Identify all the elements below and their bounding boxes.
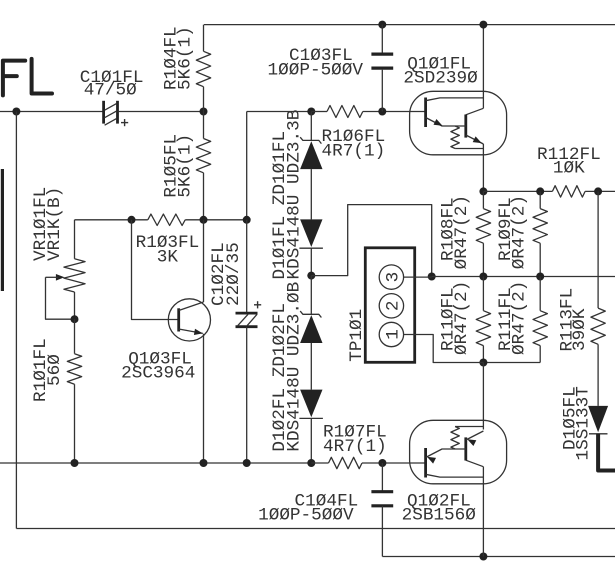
svg-text:VR1K(B): VR1K(B) [45,187,65,261]
node Q101 top rail [479,21,487,29]
resistor R108 [476,209,490,244]
wire TP pin3 [404,276,432,278]
VR101 wiper arrow [56,274,65,281]
wire VR101 top [74,220,76,259]
svg-text:1ØØP-5ØØV: 1ØØP-5ØØV [258,506,354,526]
wire R105 top stub [203,112,205,139]
svg-text:2SB156Ø: 2SB156Ø [402,506,477,526]
Q102 T2 base bar [464,437,467,460]
node diode chain top [307,108,315,116]
TP101 pin 1 [379,322,403,346]
transistor Q103 [168,299,210,341]
wire output rail [432,276,615,278]
wire left drop [15,112,17,529]
wire R104 top stub [203,25,205,52]
wire R103 row right [185,219,247,221]
wire ZD102 stub [310,276,312,315]
resistor R109 [533,209,547,244]
diode D105 [588,406,608,432]
wire ZD102-D102 [310,343,312,390]
wire D102 bottom [310,418,312,463]
svg-text:4R7(1): 4R7(1) [323,437,387,457]
wire Q102 emitter top [482,363,484,430]
Q102 base wire [424,462,426,464]
capacitor C104 [371,490,393,493]
svg-text:2: 2 [384,300,404,311]
wire C103 stub bottom [381,70,383,112]
node C102 bus [243,459,251,467]
transistor Q101 package [410,91,507,155]
node R109 top [536,187,544,195]
node R109/R111 [536,273,544,281]
node Q103 emitter bus [200,459,208,467]
svg-text:3K: 3K [157,247,179,267]
potentiometer VR101 [64,259,85,292]
Q101 T1 emitter [426,118,466,127]
resistor R107 [329,457,363,468]
node C102 top [243,216,251,224]
svg-text:5K6(1): 5K6(1) [176,134,196,198]
wire C104 stub top [381,463,383,492]
resistor R101 [67,354,81,385]
wire ZD101-D101 [310,169,312,219]
wire diode-mid to TP [311,205,431,277]
thick partial symbol at left edge [1,169,4,291]
node R104/R105 [200,108,208,116]
wire D105 thick out [598,434,615,471]
svg-text:39ØK: 39ØK [570,308,590,351]
node Q102 collector rail [479,553,487,561]
TP101 pin 2 [379,294,403,318]
svg-text:ØR47(2): ØR47(2) [452,281,472,355]
Q101 T2 emitter [466,135,484,144]
wire ZD101 stub [310,112,312,141]
connector TP101 box [365,248,414,362]
svg-text:47/5Ø: 47/5Ø [84,81,137,101]
wire R109 bottom stub [539,243,541,276]
node diode mid [307,272,315,280]
zener ZD102 [300,311,321,317]
Q102 T2 emitter [466,431,484,440]
node C103 top [378,21,386,29]
wire R105 bottom stub [203,173,205,220]
resistor R110 [482,277,484,311]
svg-text:KDS4148U UDZ3.ØB: KDS4148U UDZ3.ØB [285,282,305,452]
wire R101 top stub [74,319,76,354]
node R103 right [200,216,208,224]
capacitor C103 [371,52,393,55]
node VR101/R101 [71,315,79,323]
svg-text:KDS4148U UDZ3.3B: KDS4148U UDZ3.3B [285,110,305,280]
capacitor C102 [236,312,258,315]
wire VR101 bottom [74,292,76,319]
svg-text:1ØØP-5ØØV: 1ØØP-5ØØV [268,60,364,80]
node R101 bus [71,459,79,467]
resistor R103 [148,214,185,225]
wire mid segment [247,111,312,113]
Q102 T1 emitter [426,449,466,458]
wire bottom feedback rail [16,528,615,530]
wire C104 stub bottom [381,506,383,557]
node R112/R113 [594,187,602,195]
node R108/R110 [479,273,487,281]
svg-text:TP1Ø1: TP1Ø1 [347,309,367,362]
wire R106 right / Q101 base [363,111,426,113]
svg-text:ØR47(2): ØR47(2) [452,195,472,269]
Q101 T1 base bar [424,98,427,128]
wire R104 bottom stub [203,87,205,112]
node C104 top [378,459,386,467]
wire Q101 emitter out [482,144,484,191]
wire D101 bottom [310,248,312,275]
svg-text:4R7(1): 4R7(1) [322,141,386,161]
diode D101 [300,219,322,247]
svg-text:5K6(1): 5K6(1) [176,26,196,90]
svg-text:2SC3964: 2SC3964 [121,364,195,384]
Q102 T1 base bar [424,448,427,478]
node Q102 top [479,359,487,367]
wire top rail [204,24,615,26]
Q101 T2 base bar [464,115,467,138]
node main-left [12,108,20,116]
Q101 internal resistor [451,126,459,149]
svg-text:1: 1 [384,329,404,340]
svg-text:56Ø: 56Ø [45,354,65,386]
transistor Q102 package [410,420,507,484]
wire emitter row [483,190,552,192]
resistor R104 [196,51,210,86]
Q101 T1 collector [426,98,484,101]
svg-text:1ØK: 1ØK [553,159,585,179]
wire R106 left [311,111,327,113]
svg-text:22Ø/35: 22Ø/35 [224,242,244,306]
Q102 internal resistor [451,427,459,450]
svg-text:ØR47(2): ØR47(2) [509,281,529,355]
resistor R112 [552,186,585,197]
resistor R111 [539,277,541,311]
resistor R106 [327,106,363,118]
wire R107 left [311,462,328,464]
wire R108 bottom stub [482,243,484,276]
wire C103 stub top [381,25,383,53]
svg-text:ØR47(2): ØR47(2) [509,195,529,269]
wire R112 right [585,190,615,192]
resistor R105 [196,139,210,173]
node Q101 emitter [479,187,487,195]
Q101 T2 collector [466,108,484,115]
node D102 bus [307,459,315,467]
node TP3/rail [428,273,436,281]
wire Q103 collector [203,220,205,302]
Q102 T2 collector [466,460,484,467]
wire Q103 emitter [203,334,205,463]
node C103 bottom [378,108,386,116]
wire Q102 collector out [482,467,484,557]
title text fragment FL (cut off) [3,59,52,96]
wire R109 top stub [539,191,541,208]
wire Q103 base drop [132,220,179,320]
TP101 pin 3 [379,265,403,289]
resistor R113 [597,191,599,308]
wire R107 right [362,462,425,464]
wire R103 row left [75,219,148,221]
zener ZD101 [300,137,321,143]
wire bias row left [0,462,311,464]
svg-text:3: 3 [384,272,404,283]
svg-text:1SS133T: 1SS133T [574,386,594,460]
wire R108 top stub [482,191,484,208]
wire C102 stub bottom [246,327,248,463]
wire main input left [0,111,104,113]
capacitor C101 [102,101,105,124]
VR101 wiper wire [46,276,59,278]
wire Q101 collector top [482,25,484,109]
wire C102 stub top [246,220,248,313]
wire C102-column drop [246,112,248,220]
wire bottom collector rail [382,556,615,558]
node R103 left [128,216,136,224]
svg-text:2SD239Ø: 2SD239Ø [403,68,478,88]
wire R101 bottom stub [74,384,76,463]
Q102 T1 collector [426,474,484,477]
wire main input right [118,111,204,113]
wire TP pin1 [404,335,484,363]
diode D102 [300,390,322,418]
